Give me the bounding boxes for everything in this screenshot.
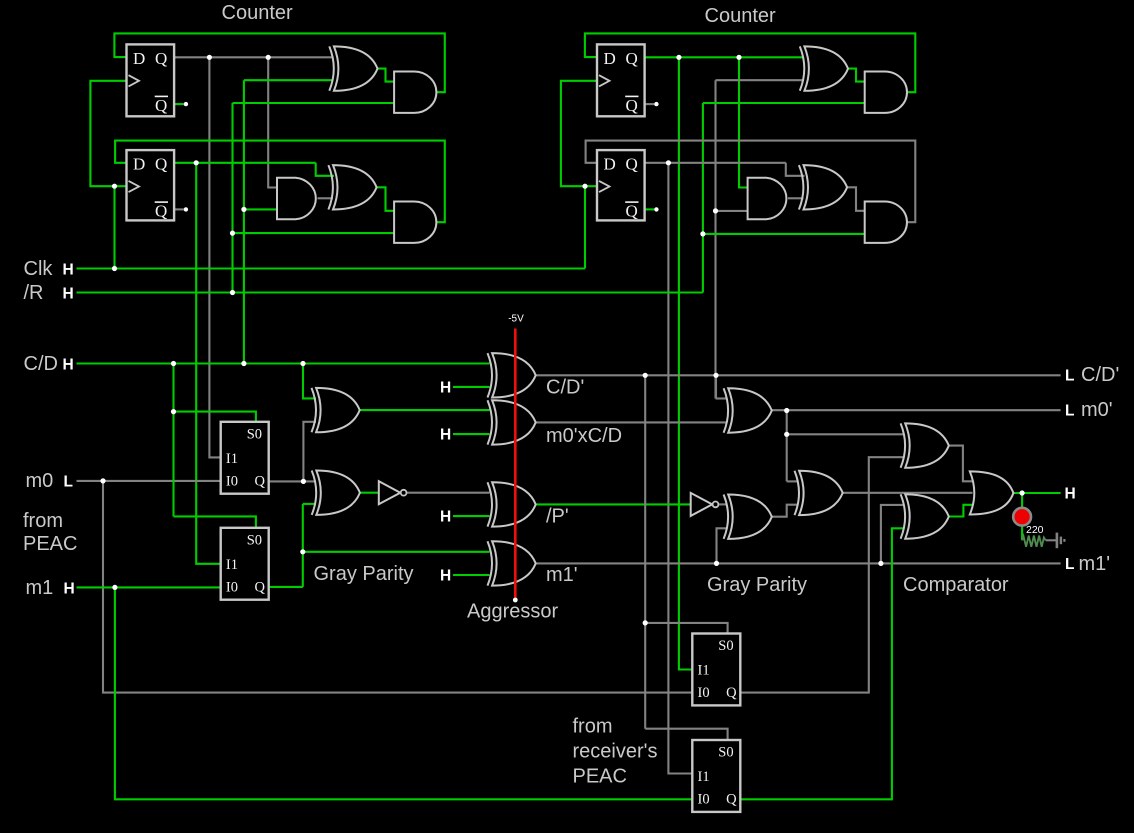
svg-text:Q: Q — [155, 49, 167, 68]
svg-text:Q: Q — [155, 202, 167, 221]
svg-text:D: D — [604, 49, 616, 68]
svg-text:H: H — [63, 286, 74, 303]
svg-text:/P': /P' — [546, 506, 569, 528]
svg-text:S0: S0 — [247, 532, 262, 548]
svg-text:PEAC: PEAC — [573, 766, 627, 788]
svg-text:Clk: Clk — [24, 258, 54, 280]
svg-text:H: H — [63, 262, 74, 279]
svg-text:L: L — [1065, 368, 1074, 385]
svg-text:m0: m0 — [26, 470, 54, 492]
svg-text:PEAC: PEAC — [23, 533, 77, 555]
svg-text:D: D — [604, 155, 616, 174]
svg-text:Q: Q — [255, 579, 266, 595]
svg-text:Counter: Counter — [222, 2, 293, 24]
svg-text:D: D — [133, 155, 145, 174]
svg-text:I0: I0 — [698, 685, 710, 701]
svg-text:Gray Parity: Gray Parity — [707, 574, 807, 596]
svg-text:S0: S0 — [247, 426, 262, 442]
svg-text:m0'xC/D: m0'xC/D — [546, 425, 622, 447]
svg-text:L: L — [64, 474, 73, 491]
svg-text:I1: I1 — [226, 451, 238, 467]
svg-text:Q: Q — [626, 202, 638, 221]
svg-text:H: H — [63, 357, 74, 374]
svg-text:H: H — [1065, 486, 1076, 503]
svg-text:C/D': C/D' — [1081, 364, 1119, 386]
svg-text:S0: S0 — [718, 638, 733, 654]
svg-text:m1: m1 — [26, 577, 54, 599]
svg-text:C/D': C/D' — [546, 377, 584, 399]
svg-text:H: H — [440, 379, 451, 396]
svg-text:Q: Q — [726, 792, 737, 808]
svg-text:I0: I0 — [698, 792, 710, 808]
svg-text:I1: I1 — [226, 557, 238, 573]
svg-text:H: H — [64, 581, 75, 598]
svg-text:from: from — [23, 510, 63, 532]
svg-text:Q: Q — [726, 685, 737, 701]
svg-text:Aggressor: Aggressor — [467, 601, 558, 623]
svg-text:L: L — [1065, 403, 1074, 420]
svg-text:Q: Q — [626, 49, 638, 68]
svg-text:m0': m0' — [1081, 399, 1113, 421]
svg-text:receiver's: receiver's — [573, 741, 658, 763]
svg-text:m1': m1' — [546, 564, 578, 586]
svg-text:I1: I1 — [698, 769, 710, 785]
svg-text:I0: I0 — [226, 473, 238, 489]
svg-text:H: H — [440, 509, 451, 526]
svg-text:L: L — [1065, 556, 1074, 573]
svg-text:m1': m1' — [1079, 553, 1111, 575]
svg-text:Q: Q — [155, 155, 167, 174]
svg-text:Q: Q — [626, 96, 638, 115]
svg-text:from: from — [573, 716, 613, 738]
svg-text:-5V: -5V — [508, 314, 524, 325]
svg-text:Comparator: Comparator — [903, 574, 1009, 596]
svg-text:Gray Parity: Gray Parity — [314, 563, 414, 585]
svg-text:/R: /R — [24, 282, 44, 304]
svg-text:S0: S0 — [718, 745, 733, 761]
svg-text:H: H — [440, 427, 451, 444]
svg-text:Counter: Counter — [705, 5, 776, 27]
svg-text:H: H — [440, 568, 451, 585]
svg-text:I0: I0 — [226, 579, 238, 595]
svg-text:I1: I1 — [698, 663, 710, 679]
svg-text:D: D — [133, 49, 145, 68]
svg-text:C/D: C/D — [24, 353, 58, 375]
svg-text:220: 220 — [1026, 524, 1044, 536]
svg-text:Q: Q — [155, 96, 167, 115]
svg-text:Q: Q — [255, 473, 266, 489]
svg-text:Q: Q — [626, 155, 638, 174]
